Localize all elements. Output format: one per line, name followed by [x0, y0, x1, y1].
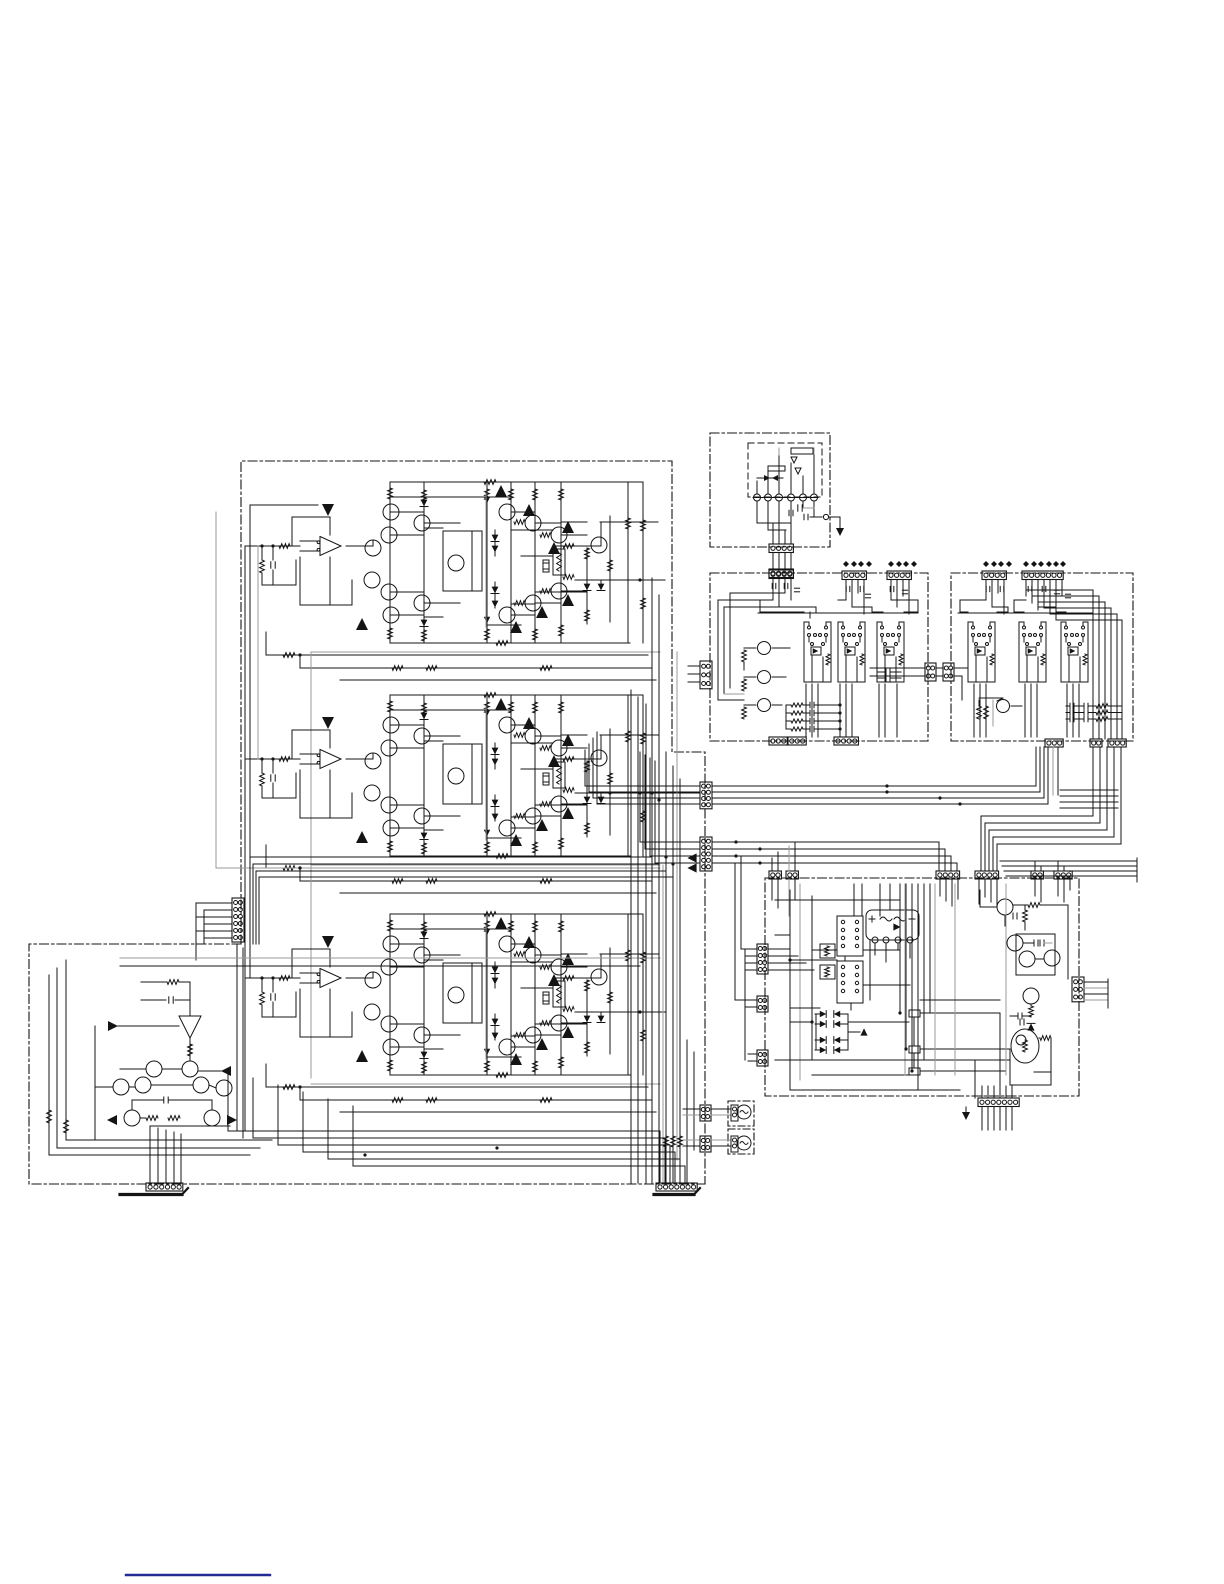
emitter resistors row (channel 1) — [514, 520, 525, 525]
capacitors under CN80/CN81 — [985, 586, 987, 591]
arrow marker right — [227, 1115, 237, 1125]
resistor R55 — [64, 1120, 69, 1133]
wire: op-amp output (channel 2) — [346, 758, 373, 760]
connector CN74 — [842, 571, 866, 580]
transistor Q75 — [997, 899, 1013, 915]
diode D31 (channel 3) — [421, 932, 428, 939]
wire: lower gathering — [49, 1154, 250, 1156]
resistor ladder verticals (channel 1) — [422, 490, 427, 501]
wire: module outputs down — [805, 684, 807, 737]
diode D72 — [1027, 1023, 1034, 1030]
transistor Q209 (channel 2) — [383, 820, 399, 836]
wire: bundle B into CN62 — [640, 752, 700, 842]
transistor Q51 — [146, 1061, 162, 1077]
wire: output verticals to CN51 — [149, 1126, 151, 1183]
wire: right edge drop — [1067, 905, 1069, 979]
wire: PSU left area frame — [789, 890, 791, 1090]
board edge bar bottom (thick) — [654, 1193, 694, 1196]
wire: protection mid rail — [95, 1086, 113, 1088]
diode D73 — [860, 1028, 867, 1035]
connector CN71 — [769, 544, 793, 553]
diode D14 (channel 1) — [492, 546, 499, 553]
resistor on lower rail (channel 3) — [496, 1073, 508, 1078]
feedback loop wires (channel 2) — [292, 730, 330, 759]
wire: vertical branch E (channel 3) — [534, 914, 536, 1075]
wire: transformer out verticals — [772, 523, 774, 544]
wire: grey return bus channel1 — [215, 512, 217, 868]
relay RY1 — [837, 916, 863, 956]
transistor Q115 (channel 1) — [525, 595, 541, 611]
interstage link wires (channel 3) — [390, 928, 511, 930]
input coupling network (channel 2) — [245, 758, 300, 760]
voltage selector marks — [791, 457, 797, 463]
connector CN85 (left edge pair A) — [925, 663, 936, 681]
transistor Q71 — [758, 642, 771, 655]
transistor Q55 — [193, 1077, 209, 1093]
wire: vertical branch G (right edge) (channel 1) — [642, 482, 644, 643]
wire: secondary drops — [756, 501, 758, 523]
junction dots on bus B — [734, 840, 737, 843]
diode D24 (channel 2) — [492, 759, 499, 766]
connector CN95 (motor 2) — [731, 1136, 738, 1152]
diode D22 (channel 2) — [421, 833, 428, 840]
resistor R72 — [744, 676, 756, 678]
wire: box-left verticals — [717, 600, 719, 700]
transistor Q313 (channel 3) — [591, 969, 607, 985]
transistor Q310 (channel 3) — [499, 936, 515, 952]
transistor Q312 (channel 3) — [551, 959, 567, 975]
wire: op-amp inputs (channel 1) — [300, 540, 318, 542]
diode D21 (channel 2) — [421, 713, 428, 720]
wire: left feed riser — [244, 546, 246, 1131]
wire: bias inner (channel 3) — [471, 963, 473, 1023]
capacitor C72 — [788, 510, 790, 516]
transistor Q54 — [135, 1077, 151, 1093]
wire: vertical branch F (channel 1) — [560, 482, 562, 643]
wire: CN73 drops — [772, 579, 774, 600]
op-amp IC3 (channel 3) — [320, 969, 341, 988]
dash-dot border: regulator board block (middle right) — [951, 573, 1133, 741]
trimmer RV3 (channel 3) — [553, 981, 565, 1007]
connector CN64 (PSU top edge A) — [769, 871, 781, 879]
small relay contacts SW2 — [909, 1046, 920, 1053]
wire: reg internals — [1023, 942, 1034, 944]
regulator feedback rows right — [1069, 703, 1071, 709]
wire: vertical branch J (channel 1) — [609, 516, 611, 622]
junction dots on bus A — [885, 784, 888, 787]
interstage link wires (channel 2) — [390, 709, 511, 711]
transistor Q305 (channel 3) — [448, 987, 464, 1003]
polarity marker arrows (channel 1) — [495, 485, 507, 497]
wire: drops to CN68/CN69 — [1034, 861, 1036, 871]
resistor R21 (channel 2) — [261, 759, 263, 773]
dash-dot border: protection/control block (bottom left) — [29, 944, 705, 1184]
diode D32 (channel 3) — [421, 1052, 428, 1059]
diode D36 (channel 3) — [492, 1033, 499, 1040]
wire: bias inner (channel 2) — [471, 744, 473, 804]
wire: bundle A out of CN61 to right boxes — [712, 747, 1036, 786]
transistor Q78 — [1044, 950, 1060, 966]
wire: op-amp inputs (channel 2) — [300, 753, 318, 755]
transistor Q205 (channel 2) — [448, 768, 464, 784]
wire: lower distribution 2 (channel 3) — [300, 1099, 652, 1101]
transistor Q202 (channel 2) — [414, 728, 430, 744]
transistor Q304 (channel 3) — [365, 972, 381, 988]
thermal coupler header (channel 3) — [543, 992, 549, 1004]
wire: lower rail (channel 3) — [390, 1074, 630, 1076]
connector CN75 — [887, 571, 911, 580]
capacitor C74 — [1012, 913, 1014, 919]
connector CN73 (pass-through top) — [769, 570, 793, 579]
wire: vertical branch D (channel 1) — [510, 482, 512, 643]
wire: PSU feed staircase from right bus — [981, 747, 1093, 871]
wire: lower distribution 1 (channel 1) — [266, 654, 648, 656]
wire: vertical branch E (channel 2) — [534, 695, 536, 856]
wire: PSU interior horizontals 2 — [812, 949, 837, 951]
diode D18 (channel 1) — [598, 584, 605, 591]
wire: vertical branch G (right edge) (channel 3) — [642, 914, 644, 1075]
input arrow marker — [108, 1021, 118, 1031]
resistor R56 — [47, 1110, 52, 1123]
diode marks on centre rail (channel 2) — [484, 710, 490, 716]
connector CN81 — [1022, 571, 1063, 580]
wire: CN68-69 drops into box — [1034, 879, 1036, 896]
capacitors C75 C76 — [1033, 940, 1035, 946]
resistors on branch verticals (channel 1) — [485, 489, 490, 500]
transistor Q109 (channel 1) — [383, 607, 399, 623]
trimmer RV2 (channel 2) — [553, 762, 565, 788]
board edge bar (thick) — [120, 1193, 182, 1196]
connector CN67 (PSU top edge D) — [975, 871, 999, 879]
driver stage coupling wires (channel 2) — [390, 724, 424, 726]
connector CN69 (PSU top edge F) — [1054, 871, 1072, 879]
arrow marker left — [107, 1115, 117, 1125]
diode D37 (channel 3) — [584, 1016, 591, 1023]
transistor Q116 (channel 1) — [499, 607, 515, 623]
grey rail drop (channel 2) — [310, 865, 312, 1078]
transistor Q208 (channel 2) — [414, 808, 430, 824]
wire: SW links — [913, 1017, 915, 1046]
wire: input ground return (channel 1) — [262, 584, 296, 586]
resistor R75 — [984, 706, 989, 719]
relay/regulator module IC75 — [1019, 622, 1024, 628]
wire: motor feed 1 — [683, 1108, 700, 1110]
connector CN78 — [788, 737, 806, 745]
wire: vertical branch F (channel 3) — [560, 914, 562, 1075]
connector CN62 (signal to PSU lower) — [700, 837, 712, 871]
transistor Q104 (channel 1) — [365, 540, 381, 556]
polarity diamonds CN80 — [983, 561, 989, 567]
wire: vertical branch K (channel 3) — [627, 914, 629, 1075]
wire: vertical branch H (channel 1) — [586, 548, 588, 624]
connector CN72 — [769, 569, 793, 578]
wire: vertical branch I (channel 2) — [600, 735, 602, 758]
input coupling network (channel 1) — [245, 545, 300, 547]
resistor R51 — [167, 980, 179, 985]
wire: right horizontal bus to stub — [1000, 860, 1137, 862]
wire: CN-AMP risers to lower bus — [236, 944, 238, 1131]
chassis ground — [839, 524, 841, 529]
wire: PSU horizontals — [775, 899, 900, 901]
transistor Q203 (channel 2) — [381, 740, 397, 756]
polarity diamonds CN74 — [843, 561, 849, 567]
wire: lower distribution 2 (channel 1) — [300, 667, 652, 669]
connector CN93 (motor 1) — [731, 1105, 738, 1121]
emitter resistors row (channel 3) — [514, 952, 525, 957]
capacitor block — [885, 669, 887, 675]
grey PSU verticals — [904, 884, 906, 1075]
transistor Q308 (channel 3) — [414, 1027, 430, 1043]
diode D34 (channel 3) — [492, 978, 499, 985]
wire: CN74 drops — [845, 580, 847, 600]
driver stage coupling wires (channel 1) — [390, 511, 424, 513]
resistor R53 — [146, 1116, 158, 1121]
diode D16 (channel 1) — [492, 601, 499, 608]
wire: vertical branch K (channel 1) — [627, 482, 629, 643]
transistor Q108 (channel 1) — [414, 595, 430, 611]
wire: vertical branch G (right edge) (channel 2) — [642, 695, 644, 856]
wire: bias inner (channel 1) — [471, 531, 473, 591]
feedback loop wires (channel 3) — [292, 949, 330, 978]
relay coil K1 — [820, 944, 835, 958]
relay/regulator module IC73 — [877, 622, 882, 628]
wire: CN88 fan — [745, 948, 757, 950]
diode marks on centre rail (channel 1) — [484, 497, 490, 503]
resistor R78 — [1029, 1006, 1034, 1017]
grey link — [992, 700, 994, 726]
resistor ladder verticals (channel 3) — [422, 922, 427, 933]
wire: left vertical bus group — [630, 690, 632, 1183]
transistor Q204 (channel 2) — [365, 753, 381, 769]
wire: Q71-73 collectors — [772, 647, 790, 649]
wire: channel 1-2 link — [257, 546, 259, 759]
wire: Q74 wiring — [1011, 705, 1022, 707]
transistor Q107 (channel 1) — [381, 584, 397, 600]
wire: vertical branch B (channel 3) — [423, 914, 425, 1075]
wire: lower distribution 1 (channel 3) — [266, 1086, 648, 1088]
transistor Q302 (channel 3) — [414, 947, 430, 963]
polarity marker arrows (channel 3) — [495, 917, 507, 929]
resistor on lower rail (channel 1) — [496, 641, 508, 646]
relay/regulator module IC72 — [838, 622, 843, 628]
diode D26 (channel 2) — [492, 814, 499, 821]
op-amp IC1 (channel 1) — [320, 537, 341, 556]
transistor Q210 (channel 2) — [499, 717, 515, 733]
resistor on top rail (channel 2) — [484, 693, 496, 698]
capacitor C73 — [803, 514, 805, 520]
resistor R52 — [188, 1044, 193, 1056]
wire: CN71-CN72 links — [772, 553, 774, 569]
regulator feedback rows — [791, 703, 803, 707]
capacitors under CN73 — [771, 583, 773, 588]
wire: CN80 drops — [985, 580, 987, 600]
wire: vertical branch K (channel 2) — [627, 695, 629, 856]
transistor Q214 (channel 2) — [551, 796, 567, 812]
capacitors under CN74/CN75 — [845, 586, 847, 591]
diode D15 (channel 1) — [492, 587, 499, 594]
wire: vertical branch C (channel 2) — [486, 695, 488, 856]
resistors on bus tails — [664, 1136, 669, 1147]
transistor Q201 (channel 2) — [383, 717, 399, 733]
diode D13 (channel 1) — [492, 535, 499, 542]
comparator IC51 (protection) — [179, 1016, 201, 1038]
transistor Q114 (channel 1) — [551, 583, 567, 599]
trimmer RV1 (channel 1) — [553, 549, 565, 575]
diode D28 (channel 2) — [598, 797, 605, 804]
wire: secondary bus — [757, 522, 791, 524]
wire: CN87 stubs right — [1084, 981, 1108, 983]
grey sense wire (channel 2) — [311, 864, 660, 866]
transistor Q53 — [113, 1079, 129, 1095]
connector CN76 (left edge) — [700, 661, 712, 689]
wire: CN64-65 stubs into box — [771, 879, 773, 900]
thermal coupler header (channel 1) — [543, 560, 549, 572]
connector CN63 (bottom bus) — [656, 1183, 697, 1191]
wire: staircase bundle lower left — [228, 1071, 660, 1183]
wire: Q80 loop — [1034, 1038, 1051, 1072]
transistor Q213 (channel 2) — [591, 750, 607, 766]
wire: input ground return (channel 3) — [262, 1016, 296, 1018]
transistor Q307 (channel 3) — [381, 1016, 397, 1032]
connector CN86 (left edge pair B) — [943, 663, 954, 681]
wire: output line to right (channel 2) — [575, 792, 700, 794]
grey sense wire (channel 1) — [311, 651, 660, 653]
footer rule (blue) — [126, 1574, 270, 1576]
connector CN79 — [834, 737, 858, 745]
wire: supply rail top (channel 1) — [390, 481, 643, 483]
resistor R11 (channel 1) — [261, 546, 263, 560]
wire: left riser (channel 3) — [265, 1064, 267, 1087]
wire: module feed rails right box — [960, 600, 986, 612]
capacitor C51 — [168, 997, 170, 1003]
connector CN68 (PSU top edge E) — [1031, 871, 1043, 879]
connector CN77 — [769, 737, 787, 745]
connector CN80 — [982, 571, 1006, 580]
transistor Q106 (channel 1) — [364, 572, 380, 588]
wire: comparator feed — [189, 1000, 191, 1016]
transistor Q314 (channel 3) — [551, 1015, 567, 1031]
transformer primary terminals — [754, 494, 761, 501]
junction dots lower bundle — [363, 1153, 366, 1156]
fuse F1 — [791, 448, 813, 454]
diode D25 (channel 2) — [492, 800, 499, 807]
transistor Q105 (channel 1) — [448, 555, 464, 571]
relay/regulator module IC71 — [804, 622, 809, 628]
resistor R79 — [1040, 1036, 1051, 1041]
connector CN88 (PSU left A) — [757, 944, 768, 974]
wire: PSU verticals misc — [844, 956, 846, 961]
wire: CN75 drops — [890, 580, 892, 600]
capacitor C52 — [163, 1097, 165, 1103]
fuse F2 — [768, 466, 785, 471]
resistor R74 — [977, 706, 982, 719]
wire: motor link 1 — [711, 1108, 731, 1110]
bridge terminals — [872, 937, 878, 943]
transistor Q311 (channel 3) — [525, 947, 541, 963]
wire: supply rail top (channel 3) — [390, 913, 643, 915]
diode D12 (channel 1) — [421, 620, 428, 627]
resistor on lower rail (channel 2) — [496, 854, 508, 859]
wire: vertical branch C (channel 3) — [486, 914, 488, 1075]
resistor on top rail (channel 3) — [484, 912, 496, 917]
bias network rectangle (channel 1) — [443, 531, 482, 591]
wire: long return bus top — [651, 579, 653, 581]
wire: op-amp output (channel 3) — [346, 977, 373, 979]
transistor Q216 (channel 2) — [499, 820, 515, 836]
input coupling network (channel 3) — [245, 977, 300, 979]
wire: bundle A into CN61 — [585, 785, 700, 787]
wire: vertical branch D (channel 3) — [510, 914, 512, 1075]
connector CN87 (right edge) — [1072, 977, 1084, 1002]
wire: vertical branch H (channel 2) — [586, 761, 588, 837]
transistor Q301 (channel 3) — [383, 936, 399, 952]
dash-dot border: power transformer block (top right) — [710, 433, 830, 547]
wire: bundle B out of CN62 to PSU top connectors — [712, 842, 939, 871]
wire: connector CN91 row — [978, 1098, 1019, 1107]
diode D33 (channel 3) — [492, 967, 499, 974]
terminal E — [823, 514, 828, 519]
diode marks on centre rail (channel 3) — [484, 929, 490, 935]
interstage link wires (channel 1) — [390, 496, 511, 498]
emitter resistors row (channel 2) — [514, 733, 525, 738]
resistor R73 — [744, 704, 756, 706]
resistor on top rail (channel 1) — [484, 480, 496, 485]
resistors on branch verticals (channel 2) — [485, 702, 490, 713]
transistor Q102 (channel 1) — [414, 515, 430, 531]
wire: CN88 into board — [768, 948, 790, 950]
wire: vertical branch C (channel 1) — [486, 482, 488, 643]
wire: CN66-67 drops into box — [939, 879, 941, 896]
wire: vertical branch A (channel 2) — [389, 695, 391, 856]
grey rail drop (channel 1) — [310, 652, 312, 865]
dash-dot border: regulator board block (middle left) — [710, 573, 928, 741]
wire: upper right bus horizontals — [1060, 789, 1118, 791]
thermal fuse diode pair — [764, 475, 770, 481]
transistor Q215 (channel 2) — [525, 808, 541, 824]
wire: protection frame — [95, 1026, 230, 1140]
wire: input ground return (channel 2) — [262, 797, 296, 799]
capacitor C11 (channel 1) — [272, 546, 274, 560]
wire: channel out rails to bus — [250, 856, 652, 858]
wire: motor feed 2 — [683, 1139, 700, 1141]
wire: vertical branch A (channel 1) — [389, 482, 391, 643]
relay/regulator module IC74 — [968, 622, 973, 628]
transistor Q111 (channel 1) — [525, 515, 541, 531]
wire: CN76 stubs — [688, 665, 700, 667]
wire: CN-AMP fan-out — [196, 902, 232, 904]
connector CN83 — [1090, 739, 1102, 747]
resistor R76 — [1028, 903, 1040, 908]
bias network rectangle (channel 3) — [443, 963, 482, 1023]
wire: terminal baseline — [753, 497, 818, 499]
wire: lower rail (channel 2) — [390, 855, 630, 857]
wire: primary drops — [756, 481, 758, 494]
transistor Q112 (channel 1) — [551, 527, 567, 543]
connector CN65 (PSU top edge B) — [786, 871, 798, 879]
transistor Q316 (channel 3) — [499, 1039, 515, 1055]
wire: lower distribution 1 (channel 2) — [266, 867, 648, 869]
capacitor C21 (channel 2) — [272, 759, 274, 773]
wire: lower distribution 3 (channel 3) — [340, 1111, 656, 1113]
connector CN66 (PSU top edge C) — [936, 871, 960, 879]
wire: lower distribution 3 (channel 2) — [340, 892, 656, 894]
transistor Q77 — [1019, 951, 1035, 967]
wire: CN81 drops — [1025, 580, 1027, 596]
transistor Q101 (channel 1) — [383, 504, 399, 520]
wire: vertical branch E (channel 1) — [534, 482, 536, 643]
junction dots left bus — [650, 791, 653, 794]
transistor Q309 (channel 3) — [383, 1039, 399, 1055]
